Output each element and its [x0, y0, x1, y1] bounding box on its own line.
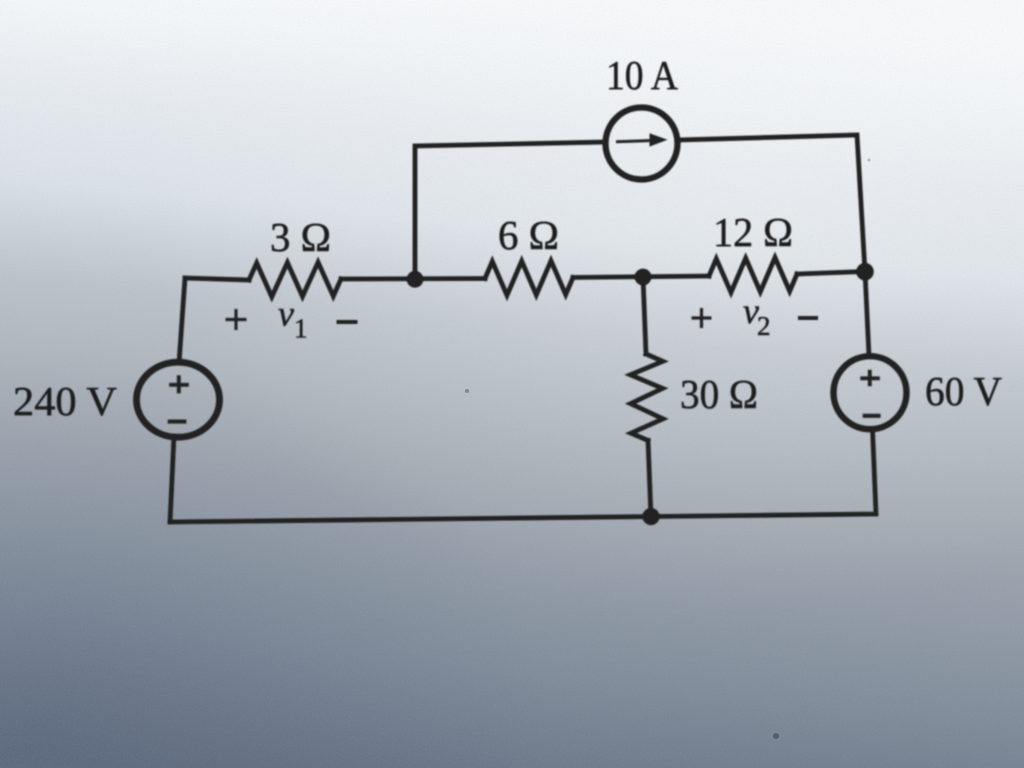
v2 polarity plus [692, 308, 712, 328]
v1 polarity plus [226, 309, 247, 330]
wire node B to 60V source top [865, 272, 869, 357]
svg-text:30 Ω: 30 Ω [680, 371, 758, 417]
bottom node junction dot [642, 508, 659, 525]
svg-text:10 A: 10 A [606, 52, 678, 98]
v2 polarity minus [798, 316, 818, 320]
resistor R 30ohm vertical [630, 354, 663, 440]
wire 240V top up to top-left corner of row [179, 278, 185, 363]
svg-text:1: 1 [294, 314, 308, 344]
wire 12-ohm to node B [797, 272, 865, 275]
wire riser and top-left segment to current source [415, 142, 606, 279]
wire 30-ohm down to bottom node [648, 440, 651, 517]
svg-text:2: 2 [757, 311, 771, 341]
svg-text:6 Ω: 6 Ω [498, 212, 559, 258]
60V plus sign [860, 370, 880, 387]
current source I1 10A circle [606, 108, 678, 180]
wire bottom-left vertical up to 240V source [170, 436, 174, 522]
svg-text:60 V: 60 V [925, 368, 1002, 414]
wire node C down to 30-ohm [643, 277, 646, 354]
wire top-right segment and right vertical down to node B [677, 135, 865, 272]
wire 3-ohm to 6-ohm through node A [341, 276, 485, 281]
svg-text:3 Ω: 3 Ω [270, 214, 331, 260]
240V plus sign [169, 375, 189, 393]
240V minus sign [168, 420, 187, 424]
svg-text:12 Ω: 12 Ω [713, 209, 793, 255]
resistor R 6ohm [485, 261, 573, 296]
resistor R 12ohm [709, 258, 797, 293]
current source arrow head [650, 133, 668, 146]
resistor R 3ohm [249, 262, 341, 297]
wire row: left corner to 3-ohm [185, 278, 249, 280]
svg-text:v: v [278, 294, 294, 334]
voltage source V2 60V circle [834, 356, 907, 429]
v1 polarity minus [337, 320, 358, 324]
60V minus sign [863, 414, 881, 418]
node B junction dot [856, 263, 874, 281]
wire 6-ohm to 12-ohm through node C [573, 276, 709, 278]
node A junction dot [407, 271, 424, 288]
voltage source V1 240V circle [137, 362, 220, 437]
paper specks [465, 159, 871, 740]
node C junction dot [635, 269, 652, 286]
current source arrow tail [616, 141, 652, 142]
svg-text:240 V: 240 V [13, 378, 117, 424]
wire 60V bottom, bottom-right corner, bottom wire [170, 429, 876, 522]
